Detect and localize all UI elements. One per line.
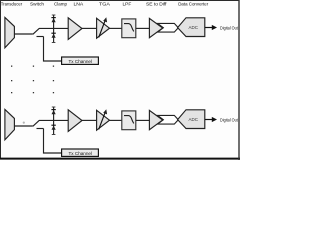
LPF block CH2 (122, 111, 136, 130)
wire: switch to Tx Channel CH1 (44, 37, 62, 62)
column label: Switch (30, 1, 45, 6)
TGA variable gain amp CH2 (97, 109, 110, 130)
svg-text:ADC: ADC (189, 25, 199, 30)
svg-text:Digital Out: Digital Out (220, 25, 238, 30)
svg-text:Switch: Switch (30, 1, 45, 6)
ellipsis dots for repeated channels (11, 66, 54, 94)
differential bus CH1 (158, 23, 179, 32)
wire: transducer to switch pole CH1 (14, 33, 32, 35)
wire: TGA to LPF CH2 (110, 119, 122, 121)
Tx Channel block CH1 (62, 57, 99, 64)
clamp diodes CH1 (51, 15, 55, 43)
frame border (0, 0, 240, 160)
column label: Transducer (1, 1, 23, 6)
svg-text:Clamp: Clamp (54, 1, 67, 6)
switch Tx throw stub CH1 (37, 36, 44, 38)
column label: Data Converter (178, 1, 208, 6)
svg-text:Tx Channel: Tx Channel (69, 59, 93, 64)
label: Digital Out CH1 (220, 25, 238, 30)
column label: SE to Diff (146, 1, 167, 6)
svg-text:Tx Channel: Tx Channel (69, 151, 93, 156)
wire: transducer to switch pole CH2 (14, 125, 32, 127)
column label: LPF (123, 1, 132, 6)
wire: LNA to TGA CH2 (82, 119, 97, 121)
differential bus CH2 (158, 115, 179, 124)
wire: LPF to SE-Diff CH1 (136, 27, 150, 29)
svg-text:Digital Out: Digital Out (220, 117, 238, 122)
wire: switch to Tx Channel CH2 (44, 129, 62, 154)
wire: switch to LNA CH2 (39, 119, 68, 121)
SE to Diff amp CH1 (149, 18, 162, 37)
wire: switch to LNA CH1 (39, 27, 68, 29)
wire: LNA to TGA CH1 (82, 27, 97, 29)
LNA op-amp CH1 (68, 18, 82, 40)
label: Digital Out CH2 (220, 117, 238, 122)
svg-text:SE to Diff: SE to Diff (146, 1, 167, 6)
wire: LPF to SE-Diff CH2 (136, 119, 150, 121)
svg-text:Data Converter: Data Converter (178, 1, 208, 6)
transducer CH2 (5, 109, 15, 139)
LPF block CH1 (122, 19, 136, 38)
svg-text:LPF: LPF (123, 1, 132, 6)
svg-text:ADC: ADC (189, 117, 199, 122)
T/R switch blade CH2 (33, 120, 39, 126)
svg-text:Transducer: Transducer (1, 1, 23, 6)
TGA variable gain amp CH1 (97, 17, 110, 38)
LNA op-amp CH2 (68, 110, 82, 132)
svg-text:LNA: LNA (74, 1, 84, 6)
column label: LNA (74, 1, 84, 6)
column label: TGA (99, 1, 110, 6)
transducer CH1 (5, 17, 15, 47)
switch Tx throw stub CH2 (37, 128, 44, 130)
faint mark near CH2 switch (23, 122, 25, 124)
SE to Diff amp CH2 (149, 110, 162, 129)
Tx Channel block CH2 (62, 149, 99, 156)
wire: TGA to LPF CH1 (110, 27, 122, 29)
ADC CH2 (178, 110, 205, 129)
arrow: ADC to Digital Out CH2 (205, 117, 217, 122)
svg-text:TGA: TGA (99, 1, 110, 6)
ADC CH1 (178, 18, 205, 37)
clamp diodes CH2 (51, 107, 55, 135)
T/R switch blade CH1 (33, 28, 39, 34)
column label: Clamp (54, 1, 67, 6)
arrow: ADC to Digital Out CH1 (205, 25, 217, 30)
